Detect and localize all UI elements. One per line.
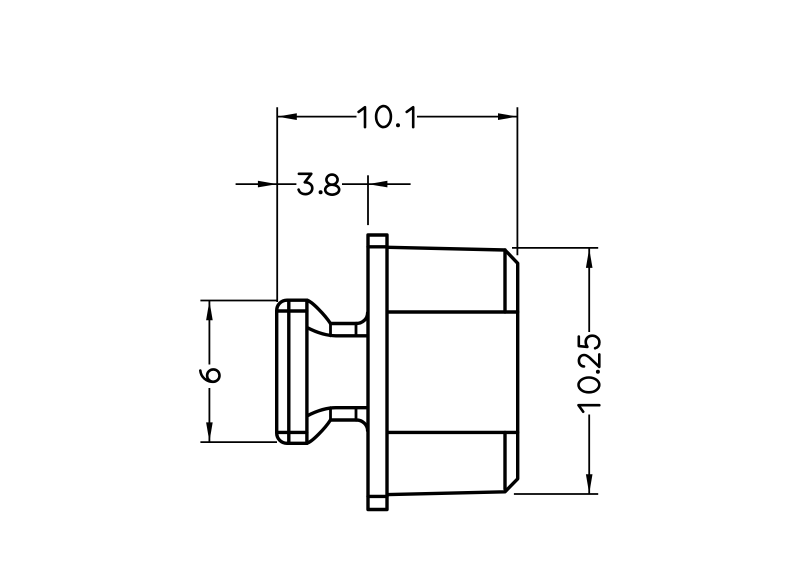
- body tangent line top: [389, 310, 518, 313]
- neck bottom inner tangent line: [308, 408, 367, 416]
- neck bottom tick left: [329, 408, 332, 420]
- neck bottom waist line: [331, 418, 357, 421]
- neck top outer fillet: [307, 300, 331, 323]
- dim 6 arrowhead top: [206, 301, 213, 320]
- neck bottom outer fillet: [307, 420, 331, 443]
- dim 6 line: [208, 301, 210, 443]
- body tangent line bottom: [389, 431, 518, 434]
- dim text 10.1 dot: [397, 124, 399, 126]
- neck top flange fillet: [356, 313, 367, 324]
- dim 10.25 extension line top: [512, 247, 598, 249]
- dim 3.8 line: [277, 183, 368, 185]
- dim text 10.25 (rotated): [579, 336, 600, 412]
- neck top tick left: [329, 324, 332, 336]
- dim text 10.1 digit 1: [359, 107, 365, 127]
- dim text 6 (rotated): [200, 369, 219, 381]
- cap inner bottom edge: [277, 431, 307, 434]
- body chamfer edge bottom: [503, 432, 506, 489]
- cap disc outline: [277, 300, 307, 443]
- dim 10.25 line: [588, 248, 590, 494]
- dim text 3.8 dot: [319, 191, 321, 193]
- flange inner top edge: [368, 245, 387, 248]
- dim 10.25 arrowhead bottom: [586, 474, 593, 493]
- dim 3.8 arrow tails: [236, 183, 411, 185]
- body chamfer edge top: [503, 250, 506, 312]
- dim 6 arrowhead bottom: [206, 422, 213, 441]
- dim 10.25 arrowhead top: [586, 249, 593, 268]
- dim 6 extension line top: [200, 300, 277, 302]
- dim text 3.8 digit 3: [299, 174, 313, 194]
- neck top inner tangent line: [308, 328, 367, 336]
- dim 10.1 line: [277, 116, 517, 118]
- dim text 10.1 digit 1b: [407, 107, 414, 127]
- dim 10.1 extension line left: [276, 107, 278, 302]
- flange inner bottom edge: [368, 495, 387, 498]
- dim 3.8 extension line right: [367, 175, 369, 225]
- dim 6 extension line bottom: [200, 441, 277, 443]
- neck bottom tick right: [355, 408, 358, 420]
- cap inner vertical edge: [287, 300, 290, 443]
- neck top tick right: [355, 324, 358, 336]
- cap inner top edge: [277, 309, 307, 312]
- dim text 10.1 digit 0: [376, 106, 391, 127]
- dim 10.1 arrowhead left: [277, 113, 297, 120]
- dim 3.8 arrowhead right: [368, 181, 387, 188]
- flange outline: [368, 235, 387, 510]
- neck top waist line: [331, 322, 357, 325]
- dim 10.1 extension line right: [516, 107, 518, 255]
- dim text 3.8 digit 8: [325, 175, 339, 195]
- dim 10.1 arrowhead right: [498, 113, 517, 120]
- body outline: [389, 247, 518, 494]
- neck bottom flange fillet: [356, 420, 367, 431]
- dim 3.8 arrowhead left: [258, 181, 277, 188]
- dim 10.25 extension line bottom: [514, 493, 598, 495]
